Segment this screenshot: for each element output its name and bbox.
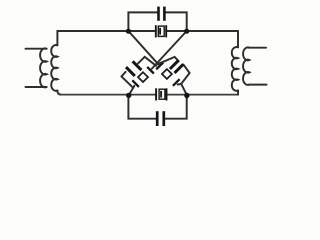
wire top rail right — [166, 30, 238, 32]
capacitor C2 branch (parallel with Y3) — [122, 72, 134, 88]
wire lattice diagonal A (top-left to bottom-right) — [128, 31, 158, 64]
crystal Y4 (diagonal A) plates — [156, 63, 179, 86]
node bottom-right junction — [184, 93, 189, 98]
crystal Y4 box — [162, 69, 172, 79]
crystal Y1 box — [158, 26, 164, 36]
capacitor C4 loop (bottom) — [128, 95, 156, 119]
transformer T2 left winding — [232, 31, 238, 95]
node bottom-left junction — [126, 93, 131, 98]
capacitor C4 plates — [157, 111, 164, 126]
capacitor C1 plates — [159, 7, 165, 21]
wire lattice diagonal B (bottom-left to top-right) — [129, 86, 135, 96]
wire bottom rail right — [167, 94, 239, 96]
capacitor C1 loop (top) — [128, 12, 157, 31]
node top-left junction — [126, 29, 131, 34]
crystal Y3 box — [138, 72, 148, 82]
wire top rail left — [57, 30, 155, 32]
crystal Y3 (diagonal B) plates — [132, 67, 154, 87]
crystal Y2 (bottom rail) plates — [156, 88, 166, 100]
node top-right junction — [184, 29, 189, 34]
capacitor C3 plates — [170, 60, 183, 73]
transformer T1 primary winding — [26, 48, 47, 87]
crystal Y1 (top rail) plates — [156, 25, 166, 37]
transformer T1 secondary winding — [51, 31, 61, 95]
capacitor C3 branch (parallel with Y4) — [158, 57, 179, 64]
transformer T2 right winding — [243, 47, 266, 85]
wire bottom rail left — [60, 94, 156, 96]
capacitor C2 plates — [126, 61, 141, 76]
crystal Y2 box — [159, 89, 165, 99]
